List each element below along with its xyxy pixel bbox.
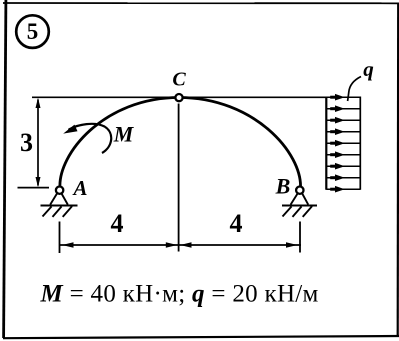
dimension line 3 (vertical) bbox=[36, 98, 41, 187]
svg-text:C: C bbox=[172, 69, 186, 91]
frame top bbox=[3, 2, 399, 4]
svg-text:M: M bbox=[113, 122, 135, 147]
moment arrow M bbox=[63, 124, 111, 153]
dimension arrowheads bbox=[62, 242, 298, 248]
load arrows bbox=[326, 94, 360, 193]
svg-text:A: A bbox=[71, 176, 87, 200]
svg-text:B: B bbox=[275, 174, 291, 199]
distributed load strip bbox=[326, 97, 360, 190]
frame bottom bbox=[3, 336, 399, 338]
top reference line bbox=[32, 96, 326, 98]
frame right bbox=[397, 3, 399, 337]
vertical line from C bbox=[178, 104, 180, 252]
bottom dimension line bbox=[60, 244, 302, 246]
svg-text:4: 4 bbox=[111, 209, 124, 238]
dimension tick at A level bbox=[18, 187, 50, 189]
hinge C bbox=[175, 94, 182, 101]
svg-text:4: 4 bbox=[230, 209, 243, 238]
figure number badge circle bbox=[16, 15, 49, 48]
svg-text:3: 3 bbox=[20, 128, 33, 157]
frame left bbox=[4, 0, 6, 338]
support A bbox=[41, 194, 78, 217]
arch bbox=[60, 98, 301, 189]
support B bbox=[282, 194, 317, 217]
bottom dimension: witness lines bbox=[60, 222, 301, 254]
q leader line bbox=[348, 77, 361, 102]
pin A bbox=[56, 187, 63, 194]
svg-text:5: 5 bbox=[27, 19, 39, 44]
pin B bbox=[296, 187, 303, 194]
svg-text:M = 40 кН·м; q = 20 кН/м: M = 40 кН·м; q = 20 кН/м bbox=[40, 281, 319, 308]
svg-text:q: q bbox=[363, 57, 374, 81]
